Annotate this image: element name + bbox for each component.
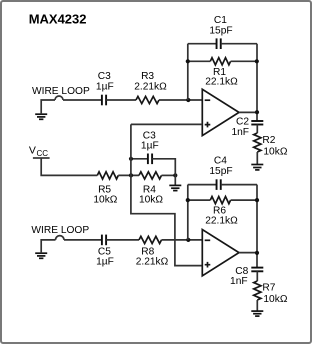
wire: R6 row left — [188, 199, 211, 201]
capacitor C5 — [102, 235, 106, 246]
svg-text:V: V — [29, 145, 36, 157]
svg-text:C1: C1 — [214, 15, 227, 26]
svg-text:WIRE LOOP: WIRE LOOP — [31, 225, 89, 236]
svg-text:C4: C4 — [214, 156, 227, 167]
wire: U1 output to node — [239, 111, 257, 113]
svg-text:10kΩ: 10kΩ — [139, 194, 163, 205]
resistor R1 — [210, 58, 230, 65]
ground G3 (C3/R4 return) — [169, 185, 181, 190]
wire: ground stem to loop line (top) — [41, 100, 55, 114]
svg-text:1nF: 1nF — [231, 127, 249, 138]
wire: R6 row right — [231, 199, 257, 201]
resistor R2 — [254, 133, 261, 152]
node: R4 right junction — [173, 173, 177, 177]
VCC terminal — [29, 145, 50, 158]
wire: C1 top row left — [188, 43, 217, 45]
op-amp U2 — [202, 230, 239, 276]
wire: U2 output to node — [239, 252, 257, 254]
svg-text:1µF: 1µF — [141, 141, 159, 152]
wire: R7 to ground — [256, 300, 258, 311]
node: U1 inverting input junction — [186, 98, 190, 102]
resistor R6 — [210, 197, 230, 204]
wire: C3b row left — [131, 158, 148, 160]
svg-text:1nF: 1nF — [230, 276, 248, 287]
wire: R4 right to ground corner — [162, 174, 176, 176]
wire: R3 to op-amp U1 inverting input — [159, 99, 202, 101]
node: U2 inverting input junction — [186, 238, 190, 242]
node: C3b left junction — [129, 157, 133, 161]
node: R1 right junction — [255, 59, 259, 63]
node: R1 left junction — [186, 59, 190, 63]
wire: feedback right column (U2) — [256, 185, 258, 268]
svg-text:1µF: 1µF — [96, 81, 114, 92]
svg-text:10kΩ: 10kΩ — [263, 147, 287, 158]
wire: bias column (to U1 + input and down to U2) — [131, 124, 202, 265]
svg-text:15pF: 15pF — [209, 166, 232, 177]
ground G4 (wire loop 2) — [35, 253, 47, 258]
node: U1 output junction — [255, 110, 259, 114]
wire: U1 non-inverting input — [131, 123, 202, 125]
svg-text:10kΩ: 10kΩ — [93, 194, 117, 205]
node: U2 output junction — [255, 251, 259, 255]
wire: C2 to R2 — [256, 125, 258, 134]
wire: C4 top row right — [221, 184, 257, 186]
wire: R2 to ground — [256, 152, 258, 165]
svg-text:22.1kΩ: 22.1kΩ — [205, 77, 238, 88]
wire: bump to C3 (top) — [63, 99, 102, 101]
capacitor C1 15pF — [217, 38, 221, 49]
op-amp U1 — [202, 89, 239, 135]
wire: R5 to R4 through bias node — [118, 174, 139, 176]
wire: junction up to feedback row (left column, U1) — [187, 44, 189, 100]
resistor R3 — [136, 96, 159, 103]
capacitor C2 1nF — [251, 121, 263, 125]
capacitor C3 (wire loop 1) — [102, 95, 106, 106]
wire: VCC stem and run to R5 — [41, 158, 97, 175]
capacitor C3 (bias bypass) — [148, 154, 152, 165]
resistor R7 — [254, 281, 261, 300]
ground G1 (wire loop 1) — [35, 114, 47, 119]
wire: stem to ground G3 — [174, 175, 176, 185]
wire: ground stem to loop line (bottom) — [41, 240, 55, 253]
svg-text:MAX4232: MAX4232 — [29, 12, 87, 27]
capacitor C8 1nF — [251, 268, 263, 272]
wire: C4 top row left — [188, 184, 217, 186]
wire: bump to C5 — [64, 239, 102, 241]
wire: R1 row left — [188, 60, 211, 62]
svg-text:R2: R2 — [262, 135, 275, 146]
resistor R5 — [97, 172, 118, 179]
wire loop bump (bottom) — [56, 236, 65, 240]
wire: feedback right column (U1) — [256, 44, 258, 121]
capacitor C4 15pF — [217, 179, 221, 190]
svg-text:R7: R7 — [262, 283, 275, 294]
svg-text:22.1kΩ: 22.1kΩ — [205, 216, 238, 227]
wire: C5 to R8 — [106, 239, 139, 241]
node: R6 right junction — [255, 198, 259, 202]
wire: C3b row right, down to R4 row — [152, 159, 175, 176]
svg-text:1µF: 1µF — [96, 256, 114, 267]
svg-text:10kΩ: 10kΩ — [263, 294, 287, 305]
svg-text:CC: CC — [37, 149, 49, 158]
wire: C1 top row right — [221, 43, 257, 45]
ground G5 (below R7) — [251, 311, 263, 316]
svg-text:WIRE LOOP: WIRE LOOP — [32, 86, 90, 97]
wire: C8 to R7 — [256, 271, 258, 281]
resistor R4 — [139, 172, 162, 179]
node: R6 left junction — [186, 198, 190, 202]
wire: R8 to op-amp U2 inverting input — [162, 239, 203, 241]
node: bias node at R5/R4 row — [129, 173, 133, 177]
svg-text:15pF: 15pF — [209, 25, 232, 36]
svg-text:2.21kΩ: 2.21kΩ — [134, 81, 167, 92]
wire: C3 to R3 — [106, 99, 136, 101]
resistor R8 — [139, 236, 162, 243]
wire loop bump (top) — [55, 96, 63, 100]
ground G2 (below R2) — [251, 165, 263, 170]
wire: junction up to feedback row (left column, U2) — [187, 185, 189, 240]
svg-text:2.21kΩ: 2.21kΩ — [136, 256, 169, 267]
wire: R1 row right — [231, 60, 257, 62]
